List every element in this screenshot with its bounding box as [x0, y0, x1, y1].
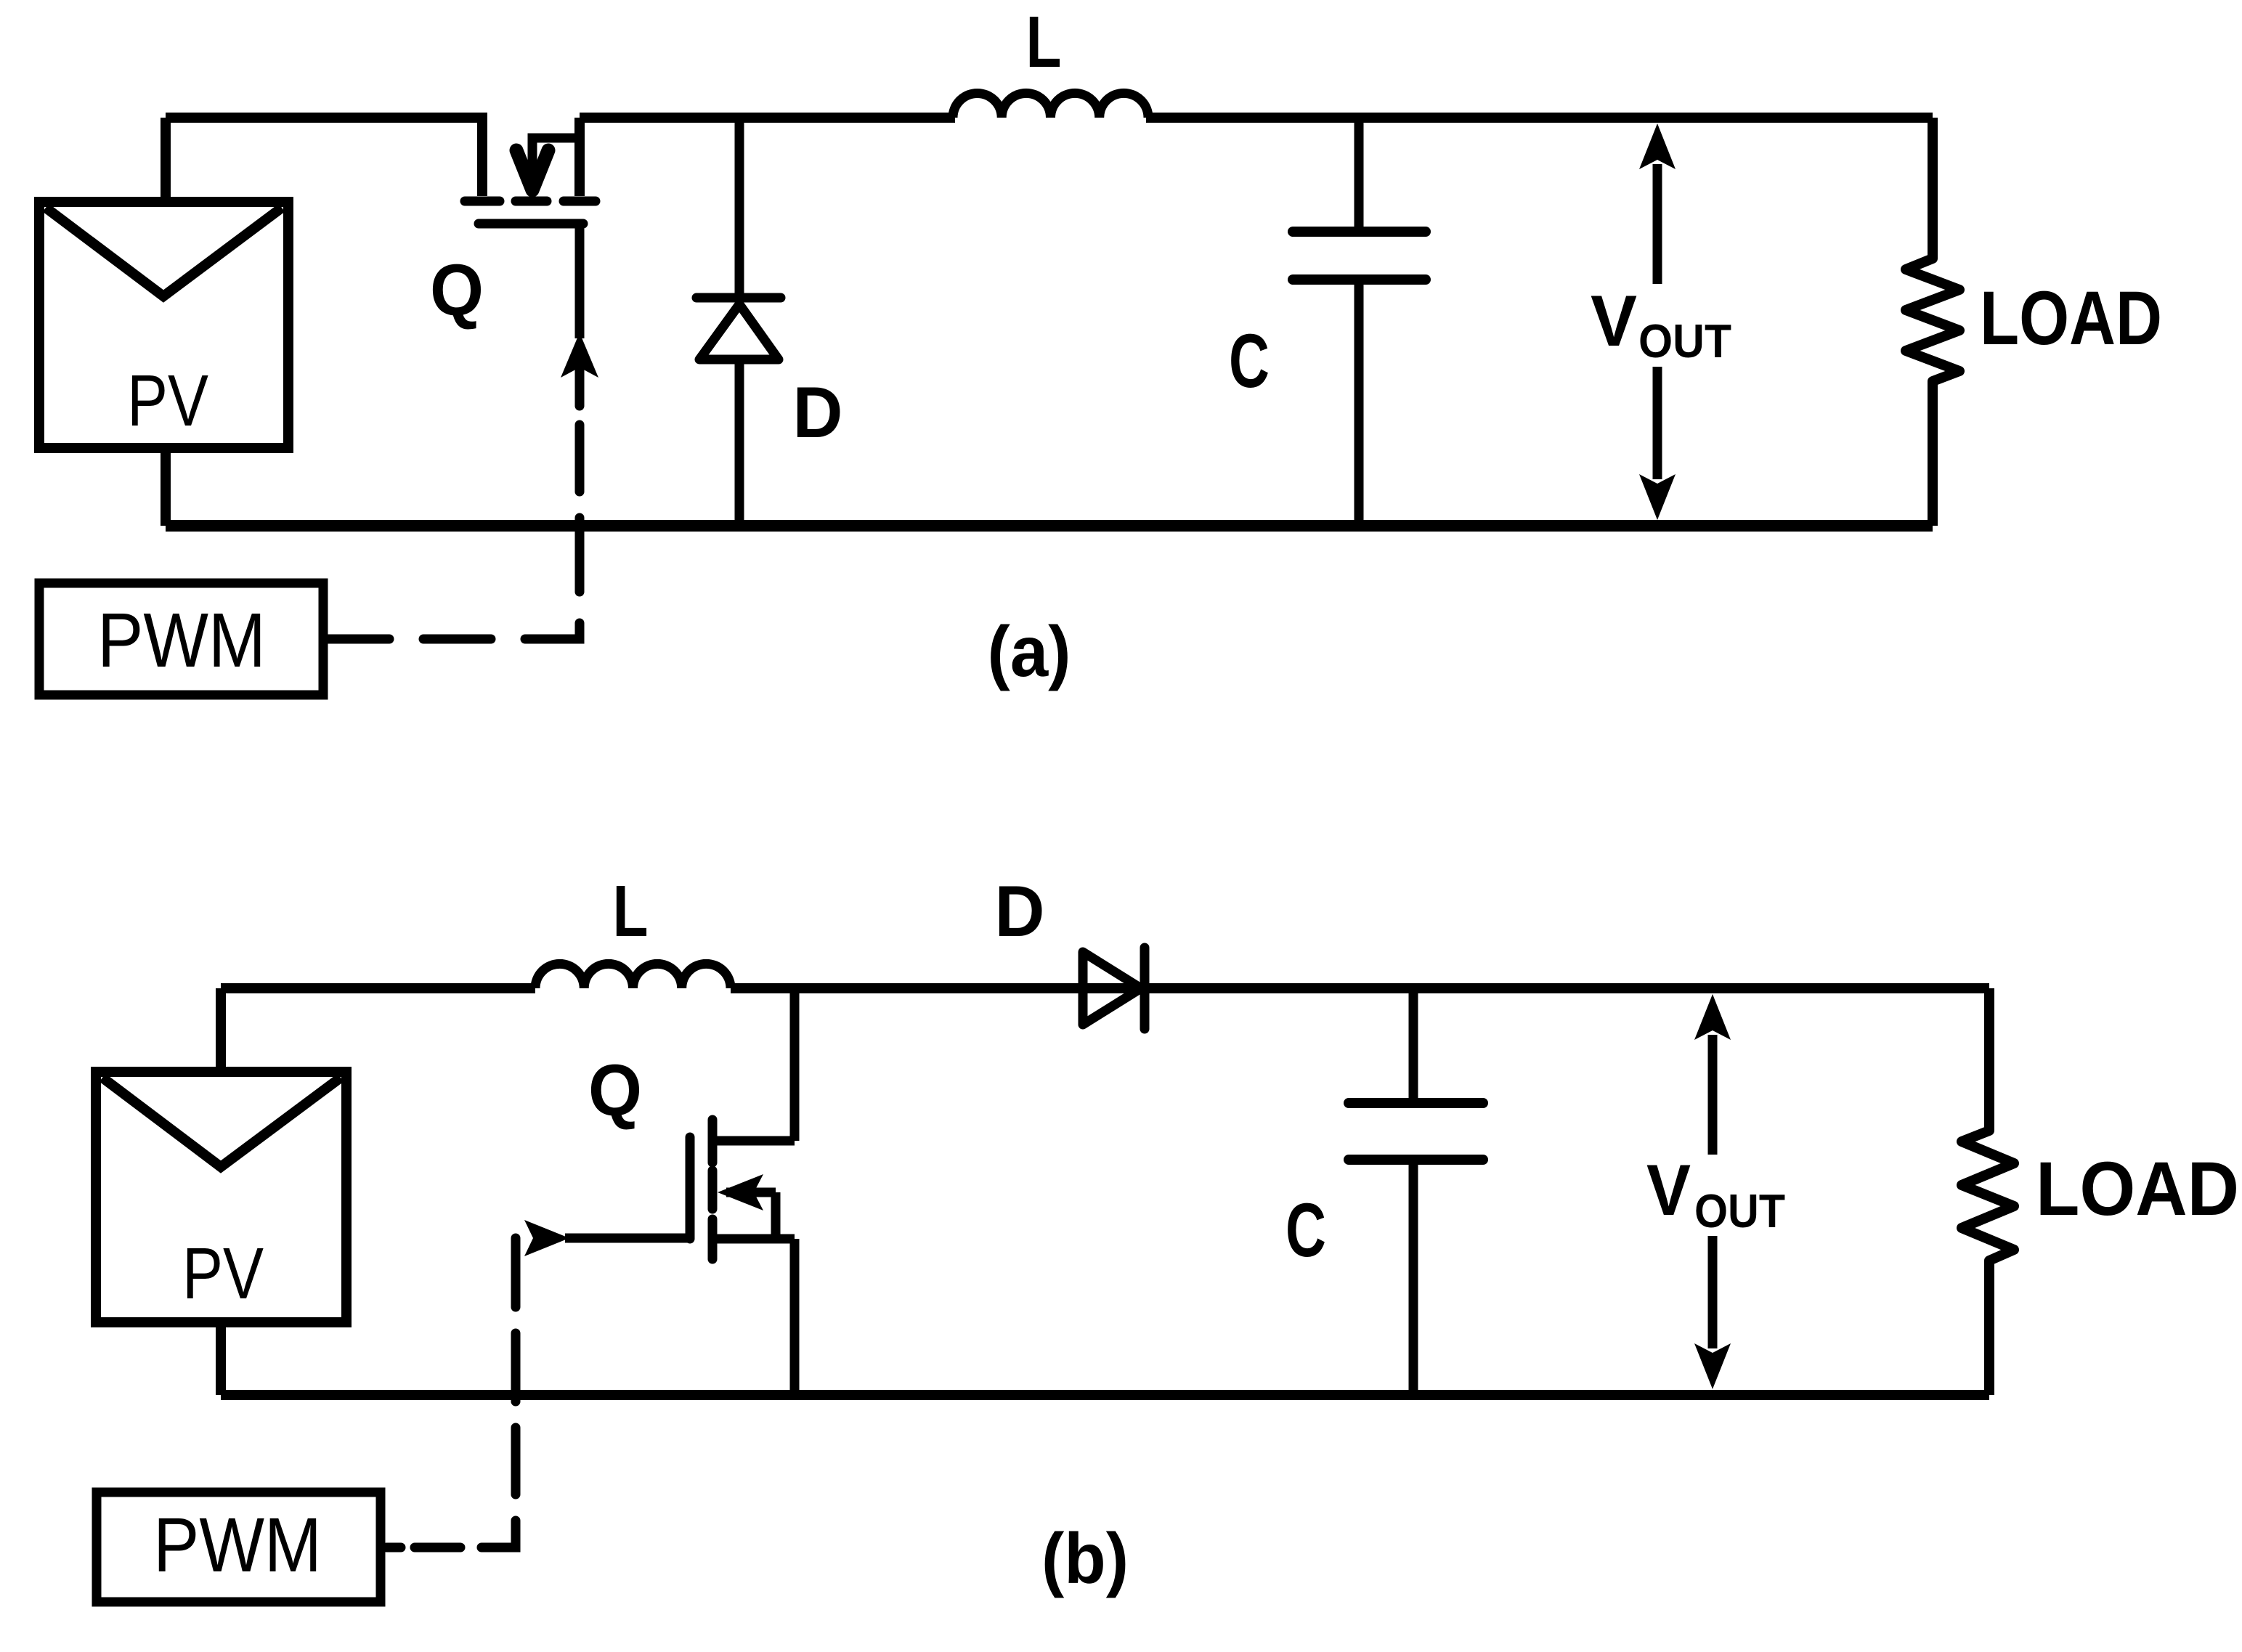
wire drain branch vertical (b): [790, 988, 800, 1141]
wire PV bottom lead (a): [161, 448, 171, 526]
diode D triangle (a): [699, 304, 779, 359]
resistor LOAD (a): [1906, 118, 1959, 526]
svg-text:C: C: [1229, 319, 1270, 404]
Vout arrow up (b): [1694, 994, 1731, 1040]
capacitor C top lead (b): [1409, 988, 1418, 1103]
wire PV top lead (a): [161, 118, 171, 202]
svg-text:PWM: PWM: [97, 598, 266, 683]
inductor L coil (b): [535, 964, 731, 988]
Vout arrow up (a): [1639, 123, 1676, 169]
PV module box (b): [96, 1072, 346, 1322]
diode D cathode bar (a): [696, 293, 781, 303]
PV envelope chevron (a): [46, 208, 282, 296]
svg-text:V: V: [1591, 280, 1637, 361]
svg-text:LOAD: LOAD: [1980, 276, 2162, 361]
svg-text:L: L: [1026, 1, 1062, 83]
transistor Q source-drain contact bars (a): [465, 197, 596, 206]
wire top rail right segment (b): [731, 983, 1989, 993]
transistor Q gate lead (b): [565, 1234, 690, 1243]
diode D triangle (b): [1083, 952, 1141, 1025]
transistor Q drain lead (b): [712, 1136, 795, 1146]
svg-text:(a): (a): [988, 611, 1071, 691]
svg-text:PWM: PWM: [153, 1502, 322, 1588]
capacitor C top lead (a): [1354, 118, 1364, 232]
wire PV bottom lead (b): [216, 1322, 226, 1395]
PV envelope chevron (b): [102, 1078, 341, 1167]
inductor L coil (a): [953, 93, 1148, 118]
wire bottom rail (a): [166, 520, 1933, 532]
svg-text:OUT: OUT: [1694, 1184, 1785, 1237]
transistor Q body arrow (b): [726, 1188, 776, 1197]
capacitor C plates (b): [1349, 1103, 1483, 1160]
svg-text:PV: PV: [127, 360, 208, 442]
transistor Q channel bar segments (b): [708, 1120, 718, 1259]
svg-text:Q: Q: [588, 1050, 642, 1131]
svg-text:OUT: OUT: [1638, 314, 1731, 367]
svg-text:PV: PV: [182, 1233, 264, 1314]
transistor Q gate lead solid (a): [575, 224, 585, 338]
wire source vertical to bottom rail (b): [790, 1239, 800, 1395]
diode D anode wire (a): [735, 118, 744, 298]
diode D cathode bar (b): [1140, 948, 1150, 1029]
svg-text:L: L: [613, 871, 649, 952]
wire top rail left segment to Q drain (a): [166, 118, 482, 196]
svg-text:V: V: [1646, 1150, 1691, 1230]
wire top rail right segment (a): [580, 113, 955, 123]
Vout arrow down (a): [1653, 367, 1662, 479]
svg-text:LOAD: LOAD: [2036, 1147, 2239, 1232]
arrowhead up on gate drive (a): [561, 333, 598, 378]
resistor LOAD (b): [1962, 988, 2014, 1395]
transistor Q source lead (b): [712, 1234, 795, 1244]
capacitor C bottom lead (b): [1409, 1160, 1418, 1395]
transistor Q gate plate (a): [479, 219, 583, 229]
wire bottom rail (b): [221, 1390, 1989, 1400]
arrowhead right on gate drive (b): [524, 1220, 569, 1256]
Vout arrow down (b): [1708, 1236, 1718, 1348]
transistor Q source vertical (a): [574, 118, 585, 196]
dashed gate drive line vertical (a): [325, 425, 580, 639]
PWM box (b): [97, 1492, 381, 1602]
svg-text:(b): (b): [1041, 1518, 1129, 1598]
dashed gate drive line horizontal (a): [423, 635, 491, 644]
transistor Q gate bar (b): [686, 1137, 695, 1239]
transistor Q body-arrow hook (a): [532, 138, 580, 173]
capacitor C plates (a): [1293, 232, 1426, 280]
svg-text:D: D: [995, 871, 1045, 951]
svg-text:D: D: [793, 372, 843, 452]
PWM box (a): [39, 583, 323, 695]
diode D lower wire (a): [735, 359, 744, 526]
svg-text:C: C: [1286, 1188, 1326, 1273]
dashed gate drive line horizontal (b): [415, 1543, 460, 1553]
PV module box (a): [39, 202, 288, 448]
dashed gate drive line vertical (b): [386, 1238, 516, 1547]
capacitor C bottom lead (a): [1354, 280, 1364, 526]
svg-text:Q: Q: [430, 250, 484, 331]
wire top rail left segment (b): [221, 983, 535, 993]
wire PV top lead (b): [216, 988, 226, 1072]
